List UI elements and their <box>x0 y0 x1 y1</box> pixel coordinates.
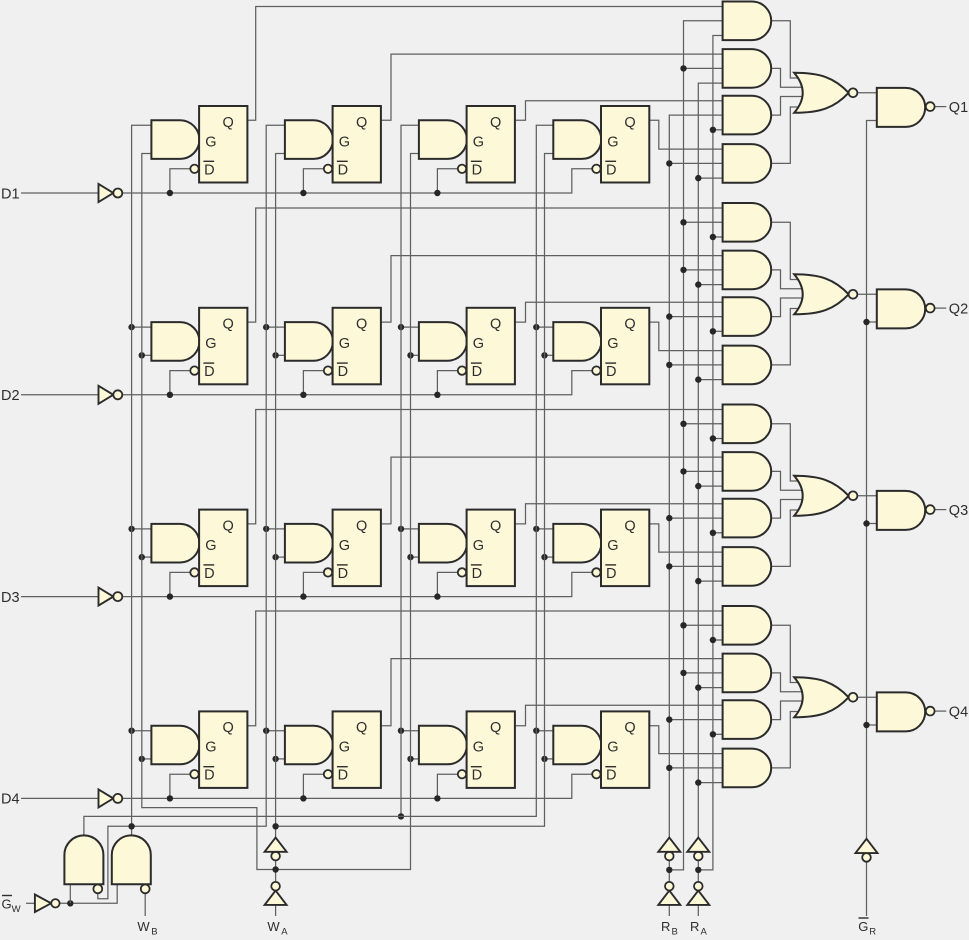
wire: notRA stub group2 gate1 <box>713 236 724 238</box>
wire: col2 B-term bus (write*notWB) <box>132 125 286 826</box>
svg-text:Q2: Q2 <box>949 301 968 317</box>
svg-text:D: D <box>472 162 482 178</box>
svg-text:W: W <box>137 919 150 934</box>
read AND gate group2 word3 <box>723 297 772 336</box>
junction: RB line group2 gate3 <box>666 313 672 319</box>
svg-text:Q4: Q4 <box>949 704 968 720</box>
wire: word4 bit1 Q to read AND gate <box>649 120 723 149</box>
wire: D2 tap to word2 latch D input <box>303 371 323 395</box>
wire: col4 A-term stub row2 <box>545 354 555 356</box>
NOR gate group4 <box>794 677 848 717</box>
latch U22 (word2 bit2) <box>333 308 381 385</box>
wire: word1 bit1 Q to read AND gate <box>247 7 723 121</box>
latch U34 (word4 bit3) <box>601 510 649 586</box>
svg-text:G: G <box>205 336 216 352</box>
latch U12 D input bubble <box>324 165 332 173</box>
inverter RA lower (output bubble) <box>687 891 709 905</box>
svg-text:Q: Q <box>223 317 234 333</box>
svg-text:A: A <box>701 926 708 935</box>
wire: col1 B-term bus (write*notWB) <box>132 125 153 826</box>
latch U11 D input bubble <box>190 165 198 173</box>
junction: notRB line group4 gate2 <box>680 670 686 676</box>
wire: col4 A-term bus (WA) <box>276 154 555 827</box>
latch U23 D input bubble <box>458 366 466 374</box>
wire: Q4 output <box>935 710 946 712</box>
junction: col3 B-term bus row4 <box>398 728 404 734</box>
junction: col3 B-term bus row2 <box>398 324 404 330</box>
wire: notRA stub group2 gate3 <box>713 330 724 332</box>
wire: col3 A-term bus (notWA) <box>276 154 420 870</box>
read AND gate group2 word1 <box>723 203 772 242</box>
wire: D4 data line across row (ends at word4 latch D input) <box>122 774 592 798</box>
NAND gate group3 <box>877 491 925 530</box>
junction: D2 line / word2 tap <box>300 392 306 398</box>
latch U41 D input bubble <box>190 770 198 778</box>
latch U32 (word2 bit3) <box>333 510 381 586</box>
wire: RA stub group3 gate2 <box>698 485 723 487</box>
svg-text:Q: Q <box>356 518 367 534</box>
wire: col3 B-term bus (write*WB) <box>401 125 420 816</box>
junction: col2 B-term bus row3 <box>263 526 269 532</box>
wire: read enable stub NAND4 <box>867 724 878 726</box>
write AND gate 1 input bubble <box>93 885 102 894</box>
junction: col4 B-term bus row4 <box>533 728 539 734</box>
wire: col3 A-term stub row4 <box>411 758 420 760</box>
wire: RB stub group1 gate4 <box>669 162 723 164</box>
AND gate (write select) cell word1 bit1 <box>151 120 199 159</box>
junction: D2 line / word1 tap <box>167 392 173 398</box>
read AND gate group4 word1 <box>723 606 772 645</box>
latch U21 (word1 bit2) <box>199 308 247 385</box>
wire: Q3 output <box>935 509 946 511</box>
latch U23 (word3 bit2) <box>467 308 515 385</box>
svg-text:G: G <box>473 538 484 554</box>
svg-text:G: G <box>607 336 618 352</box>
wire: RB stub group2 gate3 <box>669 316 723 318</box>
svg-text:G: G <box>473 134 484 150</box>
wire: group3 AND2 out to NOR <box>770 471 806 490</box>
svg-text:D: D <box>204 364 214 380</box>
junction: D3 line / word2 tap <box>300 593 306 599</box>
wire: word1 bit4 Q to read AND gate <box>247 611 723 726</box>
junction: write*notWB node <box>128 823 134 829</box>
wire: WB input <box>144 893 146 916</box>
wire: notRB stub group2 gate2 <box>684 269 724 271</box>
wire: group4 NOR out to NAND <box>857 696 878 698</box>
svg-text:D3: D3 <box>1 590 20 606</box>
junction: col3 B-term bus row3 <box>398 526 404 532</box>
wire: col1 A-term stub row2 <box>142 354 153 356</box>
svg-text:G: G <box>205 740 216 756</box>
wire: read enable stub NAND2 <box>867 321 878 323</box>
read AND gate group2 word2 <box>723 251 772 290</box>
wire: col2 A-term bus (WA) <box>276 154 286 827</box>
wire: RB read-select line <box>669 115 723 852</box>
svg-text:Q: Q <box>624 720 635 736</box>
junction: col1 A-term bus row4 <box>139 756 145 762</box>
svg-text:G: G <box>473 740 484 756</box>
wire: notRA stub group4 gate3 <box>713 733 724 735</box>
svg-text:Q: Q <box>356 317 367 333</box>
svg-text:D: D <box>204 162 214 178</box>
wire: notRB stub group2 gate1 <box>684 221 724 223</box>
wire: group2 AND3 out to NOR <box>770 298 806 317</box>
AND gate (write select) cell word2 bit3 <box>285 524 333 563</box>
wire: D2 tap to word1 latch D input <box>170 371 190 395</box>
wire: D3 input line to inverter <box>21 596 99 598</box>
wire: D2 data line across row (ends at word4 latch D input) <box>122 371 592 395</box>
AND gate (write select) cell word3 bit2 <box>419 322 467 361</box>
svg-text:D: D <box>472 768 482 784</box>
wire: GW to write AND1 left input <box>69 885 71 903</box>
wire: D2 input line to inverter <box>21 394 99 396</box>
AND gate (write select) cell word1 bit4 <box>151 726 199 765</box>
latch U11 (word1 bit1) <box>199 106 247 183</box>
read AND gate group3 word3 <box>723 499 772 538</box>
wire: D3 tap to word2 latch D input <box>303 572 323 596</box>
wire: group3 AND3 out to NOR <box>770 500 806 519</box>
AND gate (write select) cell word3 bit4 <box>419 726 467 765</box>
junction: col1 A-term bus row2 <box>139 352 145 358</box>
wire: col1 A-term bus (notWA staple) <box>142 154 276 870</box>
wire: col4 A-term stub row4 <box>545 758 555 760</box>
wire: WA inverted segment <box>275 860 277 882</box>
junction: col4 A-term bus row4 <box>541 756 547 762</box>
wire: RA stub group4 gate2 <box>698 687 723 689</box>
latch U33 (word3 bit3) <box>467 510 515 586</box>
NOR gate group3 <box>794 476 848 516</box>
wire: write AND2 output feedback to write AND1 inverted input <box>98 826 132 899</box>
svg-text:D2: D2 <box>1 388 20 404</box>
svg-text:D4: D4 <box>1 792 20 808</box>
latch U34 D input bubble <box>592 568 600 576</box>
svg-text:R: R <box>690 919 699 934</box>
svg-text:D: D <box>338 566 348 582</box>
latch U24 D input bubble <box>592 366 600 374</box>
svg-text:Q: Q <box>223 720 234 736</box>
wire: notRA stub group3 gate1 <box>713 438 724 440</box>
wire: write*WB line from write AND1 output to col4 B-term bus <box>84 125 554 835</box>
wire: col2 B-term stub row2 <box>266 326 286 328</box>
junction: D1 line / word2 tap <box>300 190 306 196</box>
wire: D4 tap to word1 latch D input <box>170 774 190 798</box>
svg-text:G: G <box>339 538 350 554</box>
wire: notRB stub group3 gate1 <box>684 423 724 425</box>
latch U14 (word4 bit1) <box>601 106 649 183</box>
AND gate (write select) cell word4 bit4 <box>553 726 601 765</box>
wire: word3 bit4 Q to read AND gate <box>515 705 724 725</box>
junction: notRB line group3 gate2 <box>680 468 686 474</box>
junction: read enable line NAND2 <box>863 319 869 325</box>
latch U43 (word3 bit4) <box>467 711 515 788</box>
junction: col4 A-term bus row3 <box>541 554 547 560</box>
svg-text:Q: Q <box>624 115 635 131</box>
junction: D1 line / word1 tap <box>167 190 173 196</box>
wire: RB input <box>668 905 670 916</box>
wire: WA input <box>275 905 277 916</box>
latch U44 D input bubble <box>592 770 600 778</box>
svg-text:Q1: Q1 <box>949 100 968 116</box>
wire: RA read-select line <box>698 83 723 852</box>
junction: RA line group4 gate4 <box>695 779 701 785</box>
junction: notRB line group2 gate1 <box>680 219 686 225</box>
wire: RA inverted segment <box>697 860 699 882</box>
svg-text:Q: Q <box>356 720 367 736</box>
junction: notRA line group1 gate3 <box>710 127 716 133</box>
inverter RA upper (input bubble) <box>694 852 703 861</box>
svg-text:Q: Q <box>223 115 234 131</box>
wire: word2 bit1 Q to read AND gate <box>381 54 724 120</box>
svg-text:R: R <box>661 919 670 934</box>
AND gate (write select) cell word2 bit1 <box>285 120 333 159</box>
latch U44 (word4 bit4) <box>601 711 649 788</box>
wire: word4 bit3 Q to read AND gate <box>649 524 723 552</box>
junction: col1 B-term bus row4 <box>128 728 134 734</box>
latch U22 D input bubble <box>324 366 332 374</box>
junction: D1 line / word3 tap <box>434 190 440 196</box>
NAND gate group2 <box>877 289 925 328</box>
inverter WA upper (input bubble) <box>271 852 280 861</box>
junction: notRB line group2 gate2 <box>680 267 686 273</box>
wire: group4 AND3 out to NOR <box>770 701 806 720</box>
wire: group1 AND3 out to NOR <box>770 97 806 116</box>
junction: notWA node <box>272 866 278 872</box>
latch U14 D input bubble <box>592 165 600 173</box>
junction: notRA line group4 gate3 <box>710 731 716 737</box>
read AND gate group4 word4 <box>723 749 772 788</box>
wire: col1 A-term stub row3 <box>142 556 153 558</box>
wire: word4 bit2 Q to read AND gate <box>649 322 723 351</box>
wire: RA stub group1 gate4 <box>698 177 723 179</box>
svg-text:A: A <box>281 926 288 935</box>
wire: D4 tap to word2 latch D input <box>303 774 323 798</box>
svg-text:W: W <box>267 919 280 934</box>
svg-text:Q: Q <box>490 518 501 534</box>
read AND gate group3 word2 <box>723 452 772 491</box>
wire: notRB stub group4 gate1 <box>684 624 724 626</box>
wire: notRA stub group3 gate3 <box>713 532 724 534</box>
wire: word3 bit2 Q to read AND gate <box>515 302 724 322</box>
svg-text:Q: Q <box>624 317 635 333</box>
junction: col4 B-term bus row3 <box>533 526 539 532</box>
svg-text:G: G <box>339 740 350 756</box>
inverter on GW input <box>35 895 51 913</box>
wire: word2 bit2 Q to read AND gate <box>381 256 724 323</box>
wire: col3 B-term stub row3 <box>401 528 420 530</box>
wire: D3 data line across row (ends at word4 latch D input) <box>122 572 592 596</box>
wire: D1 tap to word3 latch D input <box>437 169 457 193</box>
svg-text:Q: Q <box>490 720 501 736</box>
junction: RB line group2 gate4 <box>666 362 672 368</box>
wire: word1 bit3 Q to read AND gate <box>247 410 723 524</box>
wire: group3 AND1 out to NOR <box>770 424 806 481</box>
svg-text:G: G <box>607 538 618 554</box>
svg-text:G: G <box>2 897 12 912</box>
wire: word3 bit3 Q to read AND gate <box>515 504 724 524</box>
svg-text:B: B <box>151 926 157 935</box>
junction: notRA line group2 gate1 <box>710 234 716 240</box>
svg-text:G: G <box>607 134 618 150</box>
wire: group1 AND4 out to NOR <box>770 107 806 163</box>
AND gate (write select) cell word1 bit3 <box>151 524 199 563</box>
inverter on GR input <box>862 853 871 862</box>
NOR gate group2 <box>794 274 848 314</box>
write AND gate 1 (write*WB) <box>64 835 103 884</box>
wire: col2 A-term stub row4 <box>276 758 286 760</box>
wire: col1 B-term stub row3 <box>132 528 153 530</box>
AND gate (write select) cell word1 bit2 <box>151 322 199 361</box>
wire: group1 AND2 out to NOR <box>770 68 806 87</box>
wire: GW label to inverter <box>26 902 35 904</box>
junction: D2 line / word3 tap <box>434 392 440 398</box>
AND gate (write select) cell word2 bit4 <box>285 726 333 765</box>
junction: RB line group1 gate4 <box>666 160 672 166</box>
svg-text:D: D <box>472 566 482 582</box>
wire: RB inverted segment <box>668 860 670 882</box>
junction: notRA line group3 gate3 <box>710 530 716 536</box>
latch U24 (word4 bit2) <box>601 308 649 385</box>
junction: WA true node <box>272 823 278 829</box>
wire: D1 tap to word1 latch D input <box>170 169 190 193</box>
wire: group2 AND4 out to NOR <box>770 309 806 365</box>
inverter on D4 input <box>99 789 114 807</box>
inverter RB lower (output bubble) <box>658 891 680 905</box>
AND gate (write select) cell word4 bit3 <box>553 524 601 563</box>
junction: notRA line group3 gate1 <box>710 435 716 441</box>
latch U42 D input bubble <box>324 770 332 778</box>
latch U33 D input bubble <box>458 568 466 576</box>
wire: notRB read-select line <box>669 21 723 870</box>
wire: D3 tap to word3 latch D input <box>437 572 457 596</box>
junction: col2 A-term bus row4 <box>272 756 278 762</box>
wire: notRB stub group4 gate2 <box>684 672 724 674</box>
junction: col3 A-term bus row2 <box>407 352 413 358</box>
wire: col2 B-term stub row4 <box>266 730 286 732</box>
svg-text:D: D <box>204 566 214 582</box>
svg-text:D1: D1 <box>1 186 20 202</box>
wire: group4 AND2 out to NOR <box>770 673 806 692</box>
junction: notRA line group4 gate1 <box>710 637 716 643</box>
junction: GW signal <box>67 900 73 906</box>
svg-text:Q: Q <box>490 115 501 131</box>
wire: RA input <box>697 905 699 916</box>
latch U32 D input bubble <box>324 568 332 576</box>
junction: D3 line / word1 tap <box>167 593 173 599</box>
wire: RB stub group2 gate4 <box>669 364 723 366</box>
wire: RB stub group4 gate4 <box>669 767 723 769</box>
svg-text:G: G <box>205 134 216 150</box>
AND gate (write select) cell word3 bit3 <box>419 524 467 563</box>
wire: col1 A-term stub row4 <box>142 758 153 760</box>
junction: col2 A-term bus row3 <box>272 554 278 560</box>
wire: group2 AND1 out to NOR <box>770 222 806 279</box>
svg-text:W: W <box>12 904 21 915</box>
wire: notRA stub group1 gate3 <box>713 129 724 131</box>
svg-text:D: D <box>472 364 482 380</box>
wire: D1 tap to word2 latch D input <box>303 169 323 193</box>
junction: notRB line group1 gate2 <box>680 65 686 71</box>
junction: RA line group2 gate4 <box>695 376 701 382</box>
write AND gate 2 (write*notWB) <box>112 835 151 884</box>
wire: group2 AND2 out to NOR <box>770 270 806 289</box>
junction: col1 B-term bus row2 <box>128 324 134 330</box>
junction: RA line group1 gate4 <box>695 175 701 181</box>
read AND gate group1 word2 <box>723 49 772 88</box>
junction: col2 B-term bus row2 <box>263 324 269 330</box>
NAND gate group1 <box>877 88 925 127</box>
junction: col1 B-term bus row3 <box>128 526 134 532</box>
wire: RB stub group4 gate3 <box>669 719 723 721</box>
read AND gate group1 word1 <box>723 2 772 41</box>
wire: Q1 output <box>935 106 946 108</box>
svg-text:Q: Q <box>223 518 234 534</box>
wire: col1 B-term stub row4 <box>132 730 153 732</box>
wire: read enable line from GR inverter to NAND1 <box>867 121 878 839</box>
wire: RA stub group4 gate4 <box>698 782 723 784</box>
junction: RA line group3 gate2 <box>695 483 701 489</box>
junction: notRB line group3 gate1 <box>680 421 686 427</box>
junction: col4 B-term bus row2 <box>533 324 539 330</box>
latch U21 D input bubble <box>190 366 198 374</box>
wire: col4 B-term stub row4 <box>536 730 554 732</box>
svg-text:R: R <box>869 926 876 935</box>
read AND gate group4 word2 <box>723 654 772 693</box>
wire: notRB stub group3 gate2 <box>684 470 724 472</box>
wire: GR input <box>866 862 868 916</box>
svg-text:Q: Q <box>490 317 501 333</box>
svg-text:D: D <box>606 364 616 380</box>
wire: RA stub group2 gate2 <box>698 284 723 286</box>
wire: RB stub group3 gate3 <box>669 517 723 519</box>
svg-text:G: G <box>858 919 868 934</box>
svg-text:G: G <box>473 336 484 352</box>
svg-text:G: G <box>339 134 350 150</box>
latch U13 (word3 bit1) <box>467 106 515 183</box>
wire: group1 AND1 out to NOR <box>770 21 806 78</box>
wire: group1 NOR out to NAND <box>857 92 878 94</box>
latch U12 (word2 bit1) <box>333 106 381 183</box>
svg-text:D: D <box>338 162 348 178</box>
wire: group3 AND4 out to NOR <box>770 510 806 566</box>
wire: word2 bit3 Q to read AND gate <box>381 457 724 524</box>
AND gate (write select) cell word3 bit1 <box>419 120 467 159</box>
latch U31 D input bubble <box>190 568 198 576</box>
wire: col3 B-term stub row4 <box>401 730 420 732</box>
latch U43 D input bubble <box>458 770 466 778</box>
svg-text:G: G <box>607 740 618 756</box>
junction: read enable line NAND3 <box>863 520 869 526</box>
junction: D4 line / word2 tap <box>300 795 306 801</box>
wire: group4 AND1 out to NOR <box>770 625 806 682</box>
wire: word2 bit4 Q to read AND gate <box>381 659 724 726</box>
wire: group4 AND4 out to NOR <box>770 712 806 768</box>
junction: RA line group4 gate2 <box>695 684 701 690</box>
AND gate (write select) cell word4 bit1 <box>553 120 601 159</box>
junction: col2 A-term bus row2 <box>272 352 278 358</box>
junction: notRB line group4 gate1 <box>680 622 686 628</box>
svg-text:G: G <box>339 336 350 352</box>
svg-text:Q: Q <box>624 518 635 534</box>
svg-text:D: D <box>606 162 616 178</box>
svg-text:Q3: Q3 <box>949 503 968 519</box>
wire: col2 A-term stub row2 <box>276 354 286 356</box>
junction: RB line group3 gate4 <box>666 563 672 569</box>
junction: RB line group4 gate4 <box>666 765 672 771</box>
read AND gate group4 word3 <box>723 700 772 739</box>
junction: D3 line / word3 tap <box>434 593 440 599</box>
junction: RB line group3 gate3 <box>666 515 672 521</box>
wire: col3 B-term stub row2 <box>401 326 420 328</box>
